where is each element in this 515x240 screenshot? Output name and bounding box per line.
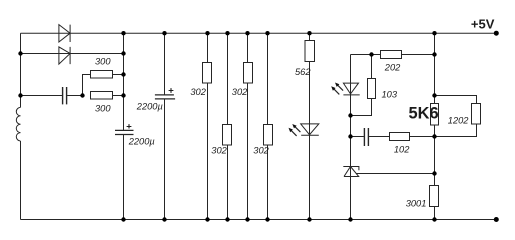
svg-text:302: 302	[211, 146, 227, 156]
svg-text:302: 302	[253, 146, 269, 156]
svg-text:+5V: +5V	[471, 16, 495, 31]
svg-text:103: 103	[382, 90, 398, 100]
svg-text:2200µ: 2200µ	[136, 101, 163, 111]
svg-text:5K6: 5K6	[409, 105, 439, 123]
svg-text:202: 202	[384, 63, 401, 73]
svg-text:2200µ: 2200µ	[128, 137, 155, 147]
svg-text:302: 302	[190, 87, 206, 97]
svg-text:3001: 3001	[406, 198, 427, 208]
svg-text:302: 302	[232, 87, 248, 97]
svg-text:300: 300	[95, 57, 111, 67]
svg-text:300: 300	[95, 104, 111, 114]
svg-text:1202: 1202	[448, 116, 470, 126]
svg-text:102: 102	[394, 145, 410, 155]
svg-text:562: 562	[295, 67, 311, 77]
